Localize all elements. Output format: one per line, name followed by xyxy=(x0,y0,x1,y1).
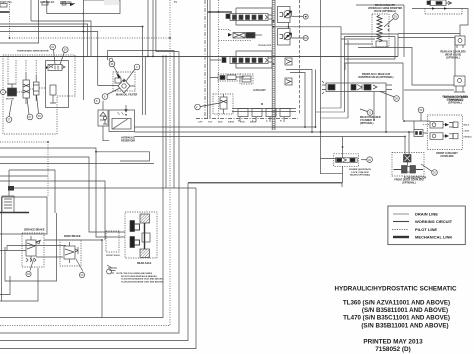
wire pilot dotted x218.5 xyxy=(218,0,220,119)
component axle hub links xyxy=(135,224,140,245)
callout circle brake A xyxy=(26,258,34,277)
node dots at crossings xyxy=(83,26,85,28)
svg-text:MECHANICAL LINK: MECHANICAL LINK xyxy=(415,235,452,240)
component ground hatch right xyxy=(107,265,117,274)
svg-text:TL470 (S/N B35C11001 AND ABOVE: TL470 (S/N B35C11001 AND ABOVE) xyxy=(343,315,450,322)
component shift valve spool xyxy=(46,65,65,71)
wire y257 link xyxy=(36,256,63,258)
svg-text:LOCK / UNLOCK: LOCK / UNLOCK xyxy=(351,172,369,174)
svg-text:(OPTIONAL): (OPTIONAL) xyxy=(360,122,374,125)
component speed sensor xyxy=(50,95,56,103)
node filter junction xyxy=(123,80,125,82)
svg-text:REAR AUX COUPLERS: REAR AUX COUPLERS xyxy=(440,51,466,54)
callout circle 40 left xyxy=(1,90,8,95)
svg-text:REAR AXLE: REAR AXLE xyxy=(137,262,152,265)
wire y163.5 run xyxy=(0,163,154,165)
component plug x96 xyxy=(95,2,100,6)
svg-text:34: 34 xyxy=(51,45,54,49)
callout circle 39 xyxy=(384,14,398,27)
component motor pump symbol left xyxy=(6,84,17,101)
svg-text:39: 39 xyxy=(394,15,397,19)
svg-text:PILOT LINE: PILOT LINE xyxy=(415,227,437,232)
component counterbalance spool xyxy=(23,72,30,104)
svg-text:30: 30 xyxy=(433,171,436,175)
node junction x342.5 y147 xyxy=(342,146,344,148)
boundary porter valve box xyxy=(345,63,403,120)
wire top-left feed xyxy=(0,11,10,13)
component bottom valve bank xyxy=(232,109,296,123)
svg-text:P1: P1 xyxy=(174,1,178,4)
wire pilot dotted vertical x9.5 xyxy=(9,4,11,38)
component solenoid block xyxy=(404,155,412,163)
wire y212.5 brake feed thick xyxy=(0,212,29,214)
boundary flow divider dashed xyxy=(392,153,424,177)
svg-text:7158052 (D): 7158052 (D) xyxy=(375,346,411,353)
callout circle 6 xyxy=(102,88,120,99)
svg-text:B: B xyxy=(280,121,282,123)
svg-text:NOTE: THE FOLLOWING MACHINES: NOTE: THE FOLLOWING MACHINES xyxy=(117,272,153,275)
small circle component x111 y62 xyxy=(109,58,113,62)
wire vertical x320.5 long xyxy=(321,0,343,183)
component inlet fitting top-left xyxy=(0,4,7,8)
svg-text:CYLINDER: CYLINDER xyxy=(360,120,372,122)
wire working y133.5 long run xyxy=(135,131,415,133)
svg-text:(S/N B35811001 AND ABOVE): (S/N B35811001 AND ABOVE) xyxy=(362,307,448,314)
wire y188 run xyxy=(9,187,196,189)
wire vertical x107.5 xyxy=(107,51,109,61)
component gearbox lower hatched xyxy=(140,249,150,258)
wire reservoir feed pair xyxy=(143,51,146,116)
callout circle 41 xyxy=(361,157,372,163)
callout circle brake B xyxy=(76,259,85,278)
svg-text:FLOW RESTRICTOR: FLOW RESTRICTOR xyxy=(404,178,427,180)
boundary axle pilot dashed small xyxy=(106,231,119,252)
wire y250.5 stub xyxy=(0,250,26,252)
component tilt fitting row4 xyxy=(218,74,244,81)
svg-text:POWER QUICKTACH: POWER QUICKTACH xyxy=(349,168,371,171)
component drive motor circle lower xyxy=(278,29,292,46)
component rear cylinder top xyxy=(427,0,452,6)
svg-text:TL360 (S/N AZVA11001 AND ABOVE: TL360 (S/N AZVA11001 AND ABOVE) xyxy=(343,299,450,306)
component motor case port xyxy=(50,85,56,95)
svg-text:RESERVOIR: RESERVOIR xyxy=(121,140,135,143)
wire service brake return box xyxy=(5,213,57,281)
svg-text:31: 31 xyxy=(368,111,371,115)
svg-text:MALE: MALE xyxy=(464,124,470,127)
svg-text:(OPTIONAL): (OPTIONAL) xyxy=(402,182,416,185)
component tilt inlet cap xyxy=(222,58,226,63)
svg-text:COUPLERS: COUPLERS xyxy=(440,155,454,158)
component service brake valve xyxy=(26,236,41,262)
component axle wheel lower xyxy=(130,237,135,248)
wire rear coupler top feed xyxy=(412,9,468,37)
svg-text:FRONT AXLE: FRONT AXLE xyxy=(106,254,120,257)
wire pump out y37.5 xyxy=(398,38,455,77)
wire y50.5 cross run xyxy=(108,51,175,189)
svg-text:TELESCOPE: TELESCOPE xyxy=(258,45,272,47)
component fitting y188 xyxy=(8,186,14,191)
svg-text:FRONT QUICK COUPLERS: FRONT QUICK COUPLERS xyxy=(394,180,424,182)
component aux spool row2 xyxy=(230,57,272,64)
callout circle 4 top xyxy=(60,47,68,65)
label rear aux couplers xyxy=(440,51,466,60)
svg-text:REAR STABILIZER: REAR STABILIZER xyxy=(360,116,381,119)
wire vertical x46.8 to y13.5 xyxy=(47,0,84,14)
wire y240 corner x102 xyxy=(44,240,102,318)
svg-text:TL470 (S/N B35C/B35B 11001 AND: TL470 (S/N B35C/B35B 11001 AND ABOVE) xyxy=(121,280,163,283)
wire diverter box right edge xyxy=(403,5,405,57)
svg-text:VALVE (OPTIONAL): VALVE (OPTIONAL) xyxy=(350,174,371,177)
label porter valve xyxy=(359,73,394,79)
wire y69.5 corner x312 xyxy=(286,70,312,133)
label rear stabilizer optional xyxy=(360,116,381,125)
boundary dotted motor assembly xyxy=(3,55,75,134)
boundary valve section outline xyxy=(236,8,272,25)
wire vertical x188 from y183 xyxy=(0,183,188,341)
wire y21 run to x91 down xyxy=(31,21,91,57)
callout circle 4 xyxy=(126,64,140,81)
wire y148 corner x96 xyxy=(0,148,125,237)
boundary power quicktach dashed xyxy=(334,154,359,167)
wire y24 run to x87.6 down xyxy=(0,24,88,57)
wire vertical x196 long xyxy=(0,188,196,349)
svg-text:ROD: ROD xyxy=(240,122,245,124)
label male female xyxy=(464,124,473,139)
wire pilot dotted x48 brake xyxy=(47,142,49,196)
svg-text:(OPTIONAL): (OPTIONAL) xyxy=(449,99,463,102)
svg-text:(S/N B35B11001 AND ABOVE): (S/N B35B11001 AND ABOVE) xyxy=(361,322,448,329)
svg-text:33: 33 xyxy=(419,108,422,112)
component front coupler upper xyxy=(430,122,458,129)
wire front coupler feeds xyxy=(404,121,430,137)
svg-text:(OPTIONAL): (OPTIONAL) xyxy=(446,57,460,60)
component inline check block xyxy=(414,130,423,137)
title block xyxy=(334,286,457,354)
wire y176 run xyxy=(0,175,48,177)
wire pilot dotted y38 xyxy=(10,37,171,39)
wire coupler upper feed y124.7 xyxy=(423,124,430,126)
component diverter valve body xyxy=(376,41,387,47)
wire mechanical link ladder x273.5 xyxy=(272,0,275,130)
label row under boundary xyxy=(198,121,257,124)
wire vertical x155.9 xyxy=(156,0,179,52)
svg-text:HYDRAULIC/HYDROSTATIC SCHEMATI: HYDRAULIC/HYDROSTATIC SCHEMATIC xyxy=(334,286,457,293)
legend mechanical link sample xyxy=(393,236,409,238)
svg-text:VALVE (OPTIONAL): VALVE (OPTIONAL) xyxy=(374,10,396,13)
component diverter solenoid coil xyxy=(377,15,382,42)
component check top x44 xyxy=(42,2,48,5)
wire y181 corner x105 xyxy=(0,181,105,240)
component spool row1 ports xyxy=(232,15,272,19)
component drive motor circle upper xyxy=(278,7,292,29)
component quicktach valve xyxy=(336,158,358,163)
svg-text:PARK BRAKE: PARK BRAKE xyxy=(64,235,81,238)
node x151.2 y56.4 xyxy=(152,56,154,58)
component hydraulic reservoir xyxy=(103,105,135,132)
wire dash-dot boundary x205 xyxy=(204,0,206,119)
label bottom bank xyxy=(238,120,282,123)
legend box xyxy=(388,206,465,245)
svg-text:SERVICE BRAKE: SERVICE BRAKE xyxy=(24,229,45,232)
svg-text:DIVERTER VALVE (OPTIONAL): DIVERTER VALVE (OPTIONAL) xyxy=(359,76,394,79)
callout circle 27 xyxy=(27,98,33,120)
boundary motor inner box xyxy=(46,61,69,108)
svg-text:4: 4 xyxy=(136,65,138,69)
svg-text:DRAIN LINE: DRAIN LINE xyxy=(415,212,438,217)
wire coupler link y90 xyxy=(404,89,454,91)
component gauge port G2 xyxy=(292,36,309,41)
label rear aux coupler lower xyxy=(442,96,468,105)
component relief square B xyxy=(285,78,292,85)
node filled arrow x72 xyxy=(70,3,74,6)
wire y182.5 run to x342 xyxy=(188,182,342,184)
callout circle 5 xyxy=(94,98,100,104)
svg-text:37: 37 xyxy=(7,118,10,122)
component front coupler lower xyxy=(430,133,458,140)
node junctions valve feeds xyxy=(273,20,275,22)
component lift spool row xyxy=(226,14,268,21)
svg-text:5: 5 xyxy=(96,99,98,103)
wire vertical x7 stub xyxy=(6,246,8,251)
wire vertical x9 brake xyxy=(8,170,10,196)
wire y245.5 park feed xyxy=(7,245,66,247)
component porter valve spool xyxy=(322,81,392,94)
wire y26.8 to pump xyxy=(272,27,341,34)
svg-text:HYDROSTATIC DRIVE MOTOR: HYDROSTATIC DRIVE MOTOR xyxy=(17,50,49,53)
wire y157 corner x89 xyxy=(0,157,125,232)
node arrows on feed xyxy=(432,7,447,10)
wire pilot dotted y40.5 xyxy=(219,40,253,42)
component cylinder port fitting row2 xyxy=(228,33,262,39)
callout circle 33 xyxy=(418,107,424,121)
svg-text:TILT: TILT xyxy=(208,122,213,124)
legend working circuit sample xyxy=(393,221,409,223)
callout circle 36b xyxy=(109,61,120,77)
callout circle 35 xyxy=(37,95,43,119)
wire vertical x151.2 xyxy=(152,0,154,56)
component gauge port G1 xyxy=(292,14,309,19)
wire vertical x38.6 with bottom run xyxy=(0,0,39,43)
wire flow divider feeds xyxy=(405,132,409,155)
component drive shaft xyxy=(144,223,146,249)
label front quick coupler xyxy=(394,180,424,185)
wire main supply y56.4 full run xyxy=(0,55,398,57)
svg-text:35: 35 xyxy=(38,114,41,118)
component brake supply block xyxy=(2,196,14,213)
wire pilot dashed x299.5 xyxy=(299,0,301,115)
node x148 y56.4 xyxy=(147,56,149,58)
callout circle 37 xyxy=(6,100,12,122)
svg-text:PRINTED MAY 2013: PRINTED MAY 2013 xyxy=(363,339,423,346)
legend pilot line sample xyxy=(392,229,408,231)
wire vertical x179 long xyxy=(0,52,179,334)
component rear coupler upper xyxy=(455,36,465,48)
label rear auxiliary diverter xyxy=(368,4,403,13)
component charge check valve xyxy=(98,101,109,141)
label note block xyxy=(117,272,164,283)
wire y26.5 long run corner x142.6 xyxy=(0,27,143,51)
svg-text:27: 27 xyxy=(28,115,31,119)
svg-text:BASE: BASE xyxy=(228,121,235,124)
wire lower left box xyxy=(0,268,38,301)
svg-text:AUXILIARY: AUXILIARY xyxy=(253,89,266,92)
component axle wheel upper xyxy=(130,221,135,232)
wire vertical x315.5 xyxy=(315,70,317,128)
component coupler manifold xyxy=(394,162,424,173)
wire feed cylinder row1 xyxy=(208,11,233,13)
component axle center box xyxy=(142,233,150,242)
callout circle 36 xyxy=(50,44,56,64)
wire y183 top run to x342 xyxy=(188,183,342,187)
component relief square A xyxy=(285,58,292,65)
svg-text:(REAR VALVE): (REAR VALVE) xyxy=(445,54,461,57)
svg-text:A: A xyxy=(266,120,268,123)
wire reservoir outlet step xyxy=(96,152,149,161)
wire pump out y33.5 xyxy=(398,33,460,35)
label power quicktach xyxy=(349,168,371,177)
svg-text:40: 40 xyxy=(368,158,371,162)
boundary service brake dashed xyxy=(22,233,44,267)
svg-text:DO NOT HAVE REAR AXLE BRAKES:: DO NOT HAVE REAR AXLE BRAKES: xyxy=(121,275,158,278)
wire park return small box xyxy=(0,276,10,295)
wire vertical x163 to drain bottom xyxy=(0,56,163,317)
wire brake box outline xyxy=(0,197,47,234)
svg-text:WORKING CIRCUIT: WORKING CIRCUIT xyxy=(415,219,453,224)
wire working y136.5 long run xyxy=(135,136,405,138)
component detent dashed box xyxy=(240,74,253,84)
component relief pair xyxy=(34,75,40,101)
svg-text:29: 29 xyxy=(64,48,67,52)
label another cylinder optional xyxy=(444,96,468,102)
svg-text:MOTOR: MOTOR xyxy=(6,99,15,101)
callout circle 2 xyxy=(195,103,220,110)
component pilot relief valve xyxy=(220,94,227,114)
component rear coupler lower xyxy=(454,76,465,92)
svg-text:MAIN OIL FILTER: MAIN OIL FILTER xyxy=(116,93,137,97)
boundary diverter dashed box xyxy=(372,14,389,47)
component tandem pump box xyxy=(341,34,398,118)
wire pilot dotted y142 xyxy=(0,141,48,143)
wire vertical x83.4 long xyxy=(82,0,84,100)
wire vertical x166 xyxy=(165,56,167,188)
svg-text:AUX: AUX xyxy=(218,121,223,124)
svg-text:BACKHOE CYLINDER: BACKHOE CYLINDER xyxy=(444,96,468,99)
boundary rear cylinder dashed xyxy=(425,9,462,15)
wire cylinder feeds xyxy=(210,60,221,78)
wire y72.5 corner x305 xyxy=(290,73,305,128)
svg-text:TL360 (S/N AZVA/B358 11001 AND: TL360 (S/N AZVA/B358 11001 AND ABOVE) xyxy=(121,278,163,281)
wire vertical x1.5 left edge xyxy=(1,197,3,301)
wire motor internals xyxy=(8,56,46,92)
wire vertical x31 xyxy=(30,0,32,21)
boundary park brake dashed xyxy=(60,240,81,266)
wire pilot dotted x170 long xyxy=(0,0,170,326)
legend drain line sample xyxy=(393,213,409,215)
component park brake actuator xyxy=(64,242,78,263)
wire pump column links xyxy=(316,108,349,118)
svg-text:CASE: CASE xyxy=(464,130,470,133)
label row top edge xyxy=(0,1,178,4)
svg-text:FEMALE: FEMALE xyxy=(464,136,473,139)
svg-text:38: 38 xyxy=(395,97,398,101)
node junction x288.5 y26.8 xyxy=(288,26,290,28)
wire vertical x207.5 xyxy=(207,0,209,119)
svg-text:2: 2 xyxy=(196,105,198,109)
node y12 x218.5 xyxy=(218,11,220,13)
component orifice x62 xyxy=(60,2,75,5)
wire dash-dot boundary bottom y118.5 xyxy=(196,118,298,120)
wire vertical x148 xyxy=(147,0,149,56)
node junction x83.4 y13.5 xyxy=(83,13,85,15)
callout circle 30 xyxy=(421,164,437,175)
svg-text:LIFT: LIFT xyxy=(198,122,203,124)
wire y170 corner x55 xyxy=(9,170,55,213)
component main oil filter xyxy=(98,72,135,93)
component gearbox upper hatched xyxy=(140,214,150,223)
callout circle 38 xyxy=(380,92,399,102)
label front auxiliary couplers xyxy=(436,152,458,158)
wire coupler link y85 xyxy=(358,48,454,86)
wire pilot dotted y30 stub xyxy=(219,30,231,33)
callout circle 32 xyxy=(360,109,373,115)
wire y31.5 run to x97.7 down xyxy=(0,32,98,86)
boundary rear axle dashed xyxy=(125,212,157,258)
wire diverter top link xyxy=(356,4,404,6)
svg-text:6: 6 xyxy=(104,95,106,99)
boundary pilot valve dashed box xyxy=(213,94,233,114)
node pilot dots xyxy=(388,25,390,27)
component tank box gray xyxy=(83,0,120,14)
svg-text:36: 36 xyxy=(111,62,114,66)
wire porter drops xyxy=(374,92,386,133)
boundary front aux couplers dashed xyxy=(427,115,462,150)
wire working y127.5 run xyxy=(135,126,316,128)
wire vertical x210 xyxy=(209,0,211,119)
